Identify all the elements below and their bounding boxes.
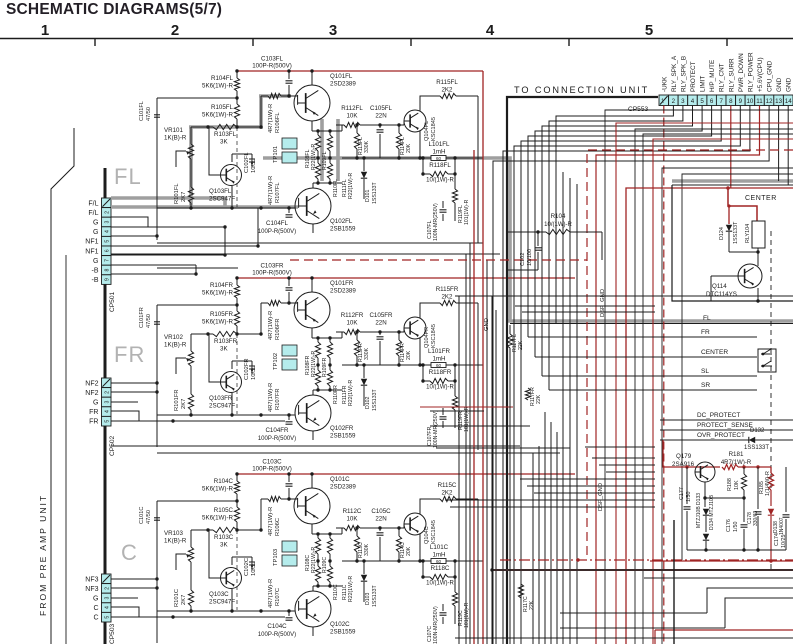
svg-text:1N4007: 1N4007 bbox=[779, 517, 785, 535]
resistor R110FR bbox=[329, 365, 331, 370]
svg-text:C102: C102 bbox=[520, 253, 526, 266]
svg-text:FL: FL bbox=[703, 315, 711, 322]
wire supply rail C103FL (red) bbox=[236, 70, 483, 72]
wire red center feed bbox=[728, 188, 757, 221]
svg-text:NF1: NF1 bbox=[85, 239, 98, 246]
svg-text:5K6(1W)-R: 5K6(1W)-R bbox=[202, 319, 233, 326]
svg-text:R110FL: R110FL bbox=[333, 179, 339, 197]
svg-text:G: G bbox=[93, 596, 98, 603]
svg-text:R106FL: R106FL bbox=[275, 112, 281, 133]
svg-text:LIMIT: LIMIT bbox=[700, 76, 707, 92]
wire CP503 pin3 stub bbox=[111, 597, 138, 599]
svg-text:22K: 22K bbox=[536, 394, 542, 404]
ruler line bbox=[0, 38, 793, 40]
connector CP553 pin 5 bbox=[697, 95, 707, 106]
svg-text:PROTECT_SENSE: PROTECT_SENSE bbox=[697, 422, 753, 429]
svg-text:100P-R(500V): 100P-R(500V) bbox=[252, 270, 292, 277]
wire protect cluster bottom rail bbox=[687, 549, 786, 551]
svg-text:10/25: 10/25 bbox=[781, 535, 787, 549]
svg-text:KSC1845: KSC1845 bbox=[431, 520, 437, 544]
svg-text:R22(1W)-R: R22(1W)-R bbox=[311, 351, 317, 377]
svg-text:CP503: CP503 bbox=[109, 624, 116, 644]
transistor Q104C KSC1845 bbox=[404, 513, 426, 535]
wire CP502 pin3 stub bbox=[111, 401, 138, 403]
wire ground return vertical bbox=[65, 255, 67, 644]
wire emitter row FR bbox=[312, 337, 342, 339]
svg-text:Q101FR: Q101FR bbox=[330, 280, 354, 287]
resistor R109FR bbox=[329, 338, 331, 342]
pin 5 cell bbox=[102, 416, 112, 426]
wire bottom rail bbox=[455, 637, 793, 639]
svg-text:R104C: R104C bbox=[214, 478, 234, 485]
wire CP553 pin 4 run bbox=[542, 106, 693, 377]
diode D102 1SS133T bbox=[363, 365, 365, 378]
wire Q179 collector bbox=[704, 482, 706, 498]
svg-text:2SC947F: 2SC947F bbox=[209, 403, 235, 410]
svg-text:Q102C: Q102C bbox=[330, 621, 350, 628]
wire mid bus line bbox=[515, 305, 655, 307]
svg-text:R105FR: R105FR bbox=[210, 311, 234, 318]
diode D134 MTZJ10B bbox=[703, 534, 709, 540]
wire mid node row bbox=[705, 497, 744, 499]
transistor Q102FL 2SB1559 bbox=[295, 188, 331, 224]
wire cascade 5 bbox=[560, 627, 725, 629]
svg-text:3: 3 bbox=[329, 22, 337, 39]
svg-text:4: 4 bbox=[105, 606, 111, 609]
wire Q104FR base bbox=[403, 328, 405, 332]
wire block left border C bbox=[156, 501, 158, 643]
svg-text:Q103C: Q103C bbox=[209, 591, 229, 598]
svg-text:RLY104: RLY104 bbox=[745, 224, 751, 243]
svg-text:2K2: 2K2 bbox=[441, 490, 453, 497]
wire mid bus line bbox=[527, 485, 655, 487]
svg-text:1K(B)-R: 1K(B)-R bbox=[164, 135, 187, 142]
svg-text:60: 60 bbox=[436, 559, 442, 564]
svg-text:-B: -B bbox=[92, 268, 99, 275]
diode D133 MTZJ10B bbox=[704, 498, 706, 507]
svg-text:100N-MR(250V): 100N-MR(250V) bbox=[433, 410, 439, 448]
wire Q103C emitter bbox=[231, 589, 233, 611]
svg-text:7: 7 bbox=[719, 98, 723, 105]
capacitor C178 330/63 bbox=[757, 467, 759, 509]
wire edge row bbox=[616, 123, 793, 644]
wire FR bottom rail bbox=[157, 452, 560, 454]
wire FL bottom rail 2 bbox=[111, 253, 500, 255]
wire bus vertical bbox=[544, 412, 546, 644]
wire edge row bbox=[643, 134, 793, 644]
svg-text:R110FR: R110FR bbox=[333, 385, 339, 404]
wire feed row bbox=[430, 410, 484, 412]
wire R115C drop lower bbox=[477, 590, 479, 644]
resistor R113C bbox=[356, 528, 358, 536]
wire black rail y296 bbox=[455, 295, 793, 297]
svg-text:DC_PROTECT: DC_PROTECT bbox=[697, 412, 740, 419]
wire OVR_PROTECT line bbox=[660, 439, 793, 441]
wire mid bus line bbox=[534, 492, 655, 494]
wire bus vertical bbox=[562, 172, 564, 644]
svg-text:22N: 22N bbox=[375, 113, 386, 120]
svg-text:Q101FL: Q101FL bbox=[330, 73, 353, 80]
wire R115FR drop bbox=[477, 303, 479, 394]
wire CP503 pin2 stub bbox=[111, 587, 157, 589]
wire cascade 2 bbox=[707, 588, 793, 613]
svg-text:60: 60 bbox=[436, 156, 442, 161]
wire edge row bbox=[653, 139, 793, 644]
svg-text:4R7(1W)-R: 4R7(1W)-R bbox=[268, 176, 274, 205]
resistor R103FR bbox=[213, 331, 237, 336]
wire Q104C collector bbox=[420, 499, 440, 514]
transistor Q104FL KSC1845 bbox=[404, 110, 426, 132]
pin 2 cell bbox=[102, 388, 112, 398]
wire R115FL drop bbox=[477, 96, 479, 187]
svg-text:1/50: 1/50 bbox=[733, 522, 739, 533]
wire cascade 4 bbox=[560, 612, 707, 614]
wire relay dash link bbox=[770, 231, 772, 570]
wire CP503 pin1 stub bbox=[111, 578, 157, 580]
wire red supply drop B bbox=[473, 150, 475, 644]
capacitor C174 10/25 bbox=[785, 467, 787, 512]
svg-text:RLY_SPK_A: RLY_SPK_A bbox=[671, 55, 678, 92]
pin 5 cell bbox=[102, 236, 112, 246]
svg-text:Q103FL: Q103FL bbox=[209, 188, 232, 195]
svg-text:2SB1559: 2SB1559 bbox=[330, 226, 356, 233]
svg-text:5: 5 bbox=[105, 420, 111, 423]
svg-text:100P-R(500V): 100P-R(500V) bbox=[258, 229, 296, 235]
wire node link C bbox=[157, 500, 237, 502]
svg-text:13: 13 bbox=[775, 98, 782, 105]
svg-text:CPU_GND: CPU_GND bbox=[767, 60, 774, 92]
ruler tick bbox=[726, 39, 728, 47]
svg-text:C: C bbox=[121, 540, 138, 565]
svg-text:22K: 22K bbox=[529, 600, 535, 610]
connector CP553 pin 10 bbox=[745, 95, 755, 106]
svg-text:PWR_DOWN: PWR_DOWN bbox=[738, 53, 745, 92]
wire Q104FL emitter bbox=[419, 131, 421, 158]
wire cascade 3 bbox=[725, 598, 793, 628]
transistor Q102FR 2SB1559 bbox=[295, 395, 331, 431]
svg-text:NF3: NF3 bbox=[85, 586, 98, 593]
svg-text:1(1/4W)-R: 1(1/4W)-R bbox=[765, 471, 771, 496]
transistor Q101FL 2SD2389 bbox=[294, 85, 330, 121]
svg-text:KSC1845: KSC1845 bbox=[431, 324, 437, 348]
svg-text:5: 5 bbox=[105, 240, 111, 243]
pin 2 cell bbox=[102, 584, 112, 594]
wire R115FR drop lower bbox=[477, 394, 479, 450]
wire CP502 pin2 stub bbox=[111, 391, 157, 393]
diode D124 1SS133T bbox=[728, 206, 730, 224]
svg-text:R115C: R115C bbox=[438, 482, 457, 489]
test point TP101 bbox=[282, 138, 297, 149]
wire red rail y407 bbox=[420, 406, 513, 408]
svg-text:R112FR: R112FR bbox=[341, 312, 364, 319]
svg-text:2: 2 bbox=[105, 391, 111, 394]
svg-text:FR: FR bbox=[114, 342, 145, 367]
svg-text:4: 4 bbox=[486, 22, 495, 39]
svg-text:GND: GND bbox=[786, 77, 793, 92]
gray trace CP501 to base rail bbox=[111, 205, 298, 209]
svg-text:5: 5 bbox=[645, 22, 653, 39]
connector CP553 pin 8 bbox=[726, 95, 736, 106]
wire edge row bbox=[635, 129, 793, 644]
transistor Q114 DTC114YS bbox=[738, 264, 762, 288]
svg-text:Q102FL: Q102FL bbox=[330, 218, 353, 225]
wire base rail FL bbox=[157, 207, 295, 209]
pin 6 cell bbox=[102, 246, 112, 256]
resistor R111FR bbox=[317, 365, 319, 370]
resistor R106FL bbox=[261, 95, 268, 97]
svg-text:4: 4 bbox=[105, 230, 111, 233]
ruler tick bbox=[94, 39, 96, 47]
wire red drop x771 bbox=[770, 467, 772, 473]
wire node link FR bbox=[157, 304, 237, 306]
wire bus vertical bbox=[495, 310, 497, 644]
svg-text:G: G bbox=[93, 400, 98, 407]
svg-text:TO CONNECTION UNIT: TO CONNECTION UNIT bbox=[514, 85, 649, 95]
wire mid bus line bbox=[592, 457, 655, 459]
svg-text:100N-MR(250V): 100N-MR(250V) bbox=[433, 606, 439, 644]
svg-text:R118C: R118C bbox=[431, 565, 450, 572]
wire R115FL drop lower bbox=[477, 187, 479, 243]
wire heavy vertical x674 bbox=[673, 520, 675, 644]
wire bus vertical bbox=[458, 296, 460, 644]
wire under gray rail bbox=[510, 323, 793, 325]
wire Q104FR collector bbox=[420, 303, 440, 318]
resistor R103FL bbox=[213, 124, 237, 129]
resistor R109FL bbox=[329, 131, 331, 135]
svg-text:C101C: C101C bbox=[139, 507, 145, 524]
svg-text:2SD2389: 2SD2389 bbox=[330, 288, 356, 295]
resistor R109C bbox=[329, 534, 331, 538]
wire CP553 pin 3 run bbox=[549, 106, 683, 391]
svg-text:Q104C: Q104C bbox=[424, 526, 430, 544]
pin 4 cell bbox=[102, 407, 112, 417]
svg-text:2: 2 bbox=[105, 587, 111, 590]
resistor R108FR bbox=[317, 338, 319, 342]
svg-text:C103FL: C103FL bbox=[261, 56, 284, 63]
svg-text:CP501: CP501 bbox=[109, 292, 116, 312]
svg-text:47/50: 47/50 bbox=[146, 107, 152, 121]
svg-text:R107C: R107C bbox=[275, 588, 281, 606]
wire lower emitter row FL bbox=[313, 182, 342, 184]
svg-text:10: 10 bbox=[746, 98, 753, 105]
wire upper riser FR bbox=[260, 303, 262, 334]
test point TP102 bbox=[282, 345, 297, 356]
svg-text:R22(1W)-R: R22(1W)-R bbox=[311, 144, 317, 170]
connector CP553 pin 7 bbox=[716, 95, 726, 106]
pin 7 cell bbox=[102, 256, 112, 266]
svg-text:R105C: R105C bbox=[214, 507, 234, 514]
pin 9 cell bbox=[102, 275, 112, 285]
svg-text:10/(1W)-R: 10/(1W)-R bbox=[426, 178, 454, 184]
svg-text:G: G bbox=[93, 229, 98, 236]
svg-text:D102: D102 bbox=[365, 396, 371, 409]
svg-text:1SS133T: 1SS133T bbox=[372, 585, 378, 607]
wire CP501 pin8 stub bbox=[111, 264, 196, 266]
svg-text:KSC1845: KSC1845 bbox=[431, 117, 437, 141]
wire upper riser FL bbox=[260, 96, 262, 127]
svg-text:R106C: R106C bbox=[275, 518, 281, 536]
svg-text:Q114: Q114 bbox=[712, 283, 727, 290]
svg-text:FR: FR bbox=[89, 419, 98, 426]
wire Q101FL emitter bbox=[311, 121, 313, 131]
resistor R107FR bbox=[261, 414, 268, 416]
svg-text:Q101C: Q101C bbox=[330, 476, 350, 483]
connector CP553 pin 11 bbox=[755, 95, 765, 106]
wire block left border FL bbox=[156, 98, 158, 240]
wire bus vertical bbox=[550, 422, 552, 644]
svg-text:1: 1 bbox=[661, 99, 664, 105]
svg-text:47/50: 47/50 bbox=[146, 314, 152, 328]
wire Q101FR emitter bbox=[311, 328, 313, 338]
svg-text:C102C: C102C bbox=[244, 558, 250, 576]
diode D103 1SS133T bbox=[363, 561, 365, 574]
resistor R114FR bbox=[398, 332, 400, 340]
transistor Q102C 2SB1559 bbox=[295, 591, 331, 627]
svg-text:2K7: 2K7 bbox=[181, 595, 187, 605]
svg-text:R22(1W)-R: R22(1W)-R bbox=[311, 547, 317, 573]
svg-text:TP101: TP101 bbox=[273, 146, 279, 163]
wire CP503 pin5 stub bbox=[111, 616, 285, 618]
svg-text:CENTER: CENTER bbox=[745, 195, 777, 202]
svg-text:R105FL: R105FL bbox=[211, 104, 234, 111]
svg-text:4: 4 bbox=[105, 410, 111, 413]
svg-text:DSP_GND: DSP_GND bbox=[600, 289, 606, 317]
svg-text:3K: 3K bbox=[220, 139, 228, 146]
wire heavy border bbox=[507, 97, 658, 644]
svg-text:VR101: VR101 bbox=[164, 127, 183, 134]
pin 1 cell bbox=[102, 198, 112, 208]
wire red dashed C103FR link bbox=[290, 259, 587, 261]
resistor R106C bbox=[261, 498, 268, 500]
svg-text:TP103: TP103 bbox=[273, 549, 279, 566]
svg-text:R22(1W)-R: R22(1W)-R bbox=[348, 576, 354, 602]
svg-text:C103FR: C103FR bbox=[260, 263, 284, 270]
wire CP553 pin 9 run bbox=[514, 106, 740, 644]
svg-text:C: C bbox=[93, 615, 98, 622]
transistor Q104FR KSC1845 bbox=[404, 317, 426, 339]
wire DC_PROTECT line bbox=[660, 419, 793, 421]
connector CP553 pin 3 bbox=[678, 95, 688, 106]
gray trace right upper rail bbox=[672, 179, 793, 183]
svg-text:101(1W)-R: 101(1W)-R bbox=[464, 199, 470, 225]
wire mid bus line bbox=[520, 478, 655, 480]
connector CP553 pin 14 bbox=[783, 95, 793, 106]
wire leader C bbox=[236, 530, 238, 610]
svg-text:MTZJ10B D133: MTZJ10B D133 bbox=[696, 493, 702, 528]
svg-text:D134 MTZJ10B: D134 MTZJ10B bbox=[709, 494, 715, 530]
svg-text:10/(1W)-R: 10/(1W)-R bbox=[426, 581, 454, 587]
svg-text:VR102: VR102 bbox=[164, 334, 183, 341]
wire output rail C bbox=[342, 560, 431, 562]
wire CP503 pin4 stub bbox=[111, 607, 139, 617]
pin 4 cell bbox=[102, 227, 112, 237]
wire output rail FL bbox=[342, 157, 431, 159]
svg-text:R103FR: R103FR bbox=[214, 338, 238, 345]
wire Q103C base bbox=[209, 530, 221, 578]
wire feed row bbox=[430, 425, 530, 427]
svg-text:20K: 20K bbox=[406, 350, 412, 360]
svg-text:F/L: F/L bbox=[88, 200, 98, 207]
svg-text:R22(1W)-R: R22(1W)-R bbox=[348, 380, 354, 406]
svg-text:20K: 20K bbox=[406, 546, 412, 556]
wire Q102FL collector bbox=[312, 224, 314, 233]
svg-text:R101FL: R101FL bbox=[174, 183, 180, 204]
svg-text:100P-R(500V): 100P-R(500V) bbox=[252, 466, 292, 473]
relay contact box bbox=[758, 349, 776, 372]
wire PROTECT_SENSE line bbox=[660, 429, 793, 431]
resistor R113FR bbox=[356, 332, 358, 340]
resistor R106FR bbox=[261, 302, 268, 304]
svg-text:H/P_MUTE: H/P_MUTE bbox=[709, 60, 716, 92]
transistor Q101FR 2SD2389 bbox=[294, 292, 330, 328]
wire Q101C emitter bbox=[311, 524, 313, 534]
transistor Q103FL 2SC947F bbox=[221, 165, 242, 186]
wire red bottom rail right bbox=[650, 560, 793, 562]
svg-text:1mH: 1mH bbox=[432, 356, 445, 363]
wire Q103FR collector bbox=[231, 361, 233, 369]
pin 3 cell bbox=[102, 217, 112, 227]
svg-text:C105FL: C105FL bbox=[370, 105, 393, 112]
svg-text:C101FL: C101FL bbox=[139, 101, 145, 121]
wire R104 to bus bbox=[601, 232, 603, 260]
svg-text:R104FL: R104FL bbox=[211, 75, 234, 82]
wire relay bottom bbox=[729, 251, 758, 253]
wire Q104FR emitter bbox=[419, 338, 421, 365]
svg-text:5K6(1W)-R: 5K6(1W)-R bbox=[202, 290, 233, 297]
svg-text:C176: C176 bbox=[726, 519, 732, 532]
resistor R110C bbox=[329, 561, 331, 566]
wire CP553 pin 8 run (red) bbox=[730, 106, 732, 189]
pin 1 cell bbox=[102, 378, 112, 388]
svg-text:Q104FR: Q104FR bbox=[424, 327, 430, 348]
svg-text:330K: 330K bbox=[364, 140, 370, 153]
svg-text:NF1: NF1 bbox=[85, 248, 98, 255]
wire FR line bbox=[528, 336, 757, 338]
svg-text:D124: D124 bbox=[719, 227, 725, 240]
svg-text:10K: 10K bbox=[346, 320, 358, 327]
svg-text:1K(B)-R: 1K(B)-R bbox=[164, 342, 187, 349]
svg-text:4R7(1W)-R: 4R7(1W)-R bbox=[268, 383, 274, 412]
connector CP553 pin 13 bbox=[774, 95, 784, 106]
svg-text:2: 2 bbox=[171, 22, 179, 39]
wire Q104FL collector bbox=[420, 96, 440, 111]
svg-text:+5.6V(CPU): +5.6V(CPU) bbox=[757, 57, 764, 92]
svg-text:10K: 10K bbox=[346, 516, 358, 523]
pin 3 cell bbox=[102, 593, 112, 603]
wire edge row bbox=[682, 174, 793, 560]
svg-text:C103C: C103C bbox=[262, 459, 282, 466]
svg-text:NF2: NF2 bbox=[85, 380, 98, 387]
svg-text:FR: FR bbox=[701, 329, 710, 336]
svg-text:2: 2 bbox=[105, 211, 111, 214]
wire mid rail FR bbox=[191, 333, 213, 335]
pin 4 cell bbox=[102, 603, 112, 613]
wire bus vertical bbox=[569, 178, 571, 644]
wire CP553 pin 14 run bbox=[787, 106, 789, 186]
wire red dashed bus corner bbox=[587, 150, 793, 560]
svg-text:4R7(1W)-R: 4R7(1W)-R bbox=[268, 104, 274, 133]
wire edge row bbox=[662, 168, 793, 644]
svg-text:NF2: NF2 bbox=[85, 390, 98, 397]
svg-text:10K: 10K bbox=[346, 113, 358, 120]
svg-text:GND: GND bbox=[484, 318, 490, 331]
svg-text:D132: D132 bbox=[750, 428, 765, 434]
svg-text:5: 5 bbox=[105, 616, 111, 619]
wire block left border FR bbox=[156, 305, 158, 447]
wire Q101C collector bbox=[311, 474, 313, 488]
wire Q114 emitter bbox=[757, 288, 759, 301]
svg-text:C104C: C104C bbox=[267, 623, 287, 630]
